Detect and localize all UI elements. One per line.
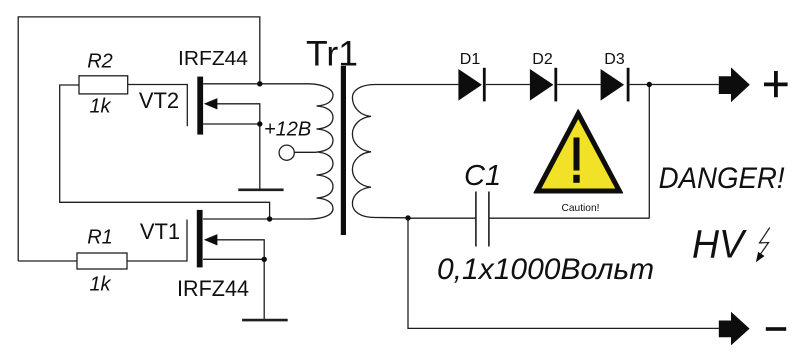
svg-text:C1: C1 (464, 160, 501, 192)
wire R2 right to gate VT2 (128, 85, 188, 127)
transistor VT2 body arrow (204, 98, 218, 109)
terminal arrow plus (719, 67, 750, 102)
svg-text:1k: 1k (89, 274, 111, 296)
terminal arrow minus (719, 312, 750, 346)
wire secondary bottom to node (375, 217, 408, 219)
terminal circle +12V (279, 145, 294, 160)
wire bottom rail (408, 218, 719, 329)
svg-text:IRFZ44: IRFZ44 (177, 276, 249, 301)
svg-text:D3: D3 (604, 51, 625, 68)
wire VT2 drain (203, 83, 309, 85)
wire VT1 body pin (216, 240, 264, 259)
lightning bolt HV (759, 228, 770, 256)
wire D1 to D2 (486, 84, 530, 86)
ground VT2 (238, 189, 283, 192)
node diode output (647, 82, 652, 87)
resistor R1 (77, 253, 127, 269)
wire node to C1 left plate (408, 217, 476, 219)
node VT2 source (257, 121, 262, 126)
wire center tap (294, 151, 316, 153)
svg-text:VT1: VT1 (140, 219, 180, 244)
diode D2 (530, 69, 554, 101)
wire D3 to plus arrow (630, 84, 719, 86)
transistor VT1 channel bar (197, 210, 203, 268)
transformer Tr1 primary winding (309, 84, 333, 219)
wire VT1 source (203, 259, 264, 319)
transformer Tr1 secondary winding (352, 85, 375, 218)
wire VT2 body pin (216, 104, 260, 124)
capacitor C1 plates (476, 192, 489, 247)
node secondary bottom (405, 215, 410, 220)
wire R1 right to gate VT1 (127, 220, 187, 262)
ground VT1 (242, 319, 288, 322)
warning triangle (534, 110, 622, 193)
diode D3 (601, 69, 625, 101)
svg-text:IRFZ44: IRFZ44 (178, 47, 248, 70)
diode D1 (458, 69, 482, 101)
svg-text:VT2: VT2 (139, 88, 179, 113)
svg-text:1k: 1k (89, 95, 111, 117)
wire R2 left to VT1 drain (60, 85, 270, 219)
node VT1 source (262, 257, 267, 262)
svg-text:+12В: +12В (264, 119, 311, 141)
wire D2 to D3 (557, 84, 600, 86)
svg-text:D1: D1 (460, 51, 481, 68)
svg-text:Caution!: Caution! (562, 203, 600, 214)
plus sign (764, 71, 788, 97)
wire VT1 drain (203, 218, 309, 220)
resistor R2 (79, 76, 128, 94)
svg-text:0,1x1000Вольт: 0,1x1000Вольт (437, 253, 654, 286)
wire secondary top to D1 (375, 84, 458, 86)
transformer core (341, 66, 346, 235)
minus sign (766, 327, 786, 331)
svg-text:DANGER!: DANGER! (659, 162, 785, 195)
svg-text:R2: R2 (87, 50, 113, 72)
transistor VT2 channel bar (197, 77, 203, 135)
svg-text:Tr1: Tr1 (306, 34, 358, 73)
node VT1 drain (267, 216, 272, 221)
node VT2 drain (257, 81, 262, 86)
svg-text:HV: HV (692, 223, 747, 267)
svg-text:R1: R1 (87, 227, 113, 249)
transistor VT1 body arrow (204, 234, 218, 245)
svg-text:D2: D2 (532, 51, 553, 68)
wire diode node down to C1 level (648, 85, 650, 219)
wire C1 right plate to corner (489, 217, 649, 219)
wire VT2 source (203, 124, 260, 189)
wire R1 left (18, 260, 77, 262)
wire outer loop (VT2 drain to R1 left) (18, 17, 260, 261)
exclamation mark (574, 138, 580, 171)
